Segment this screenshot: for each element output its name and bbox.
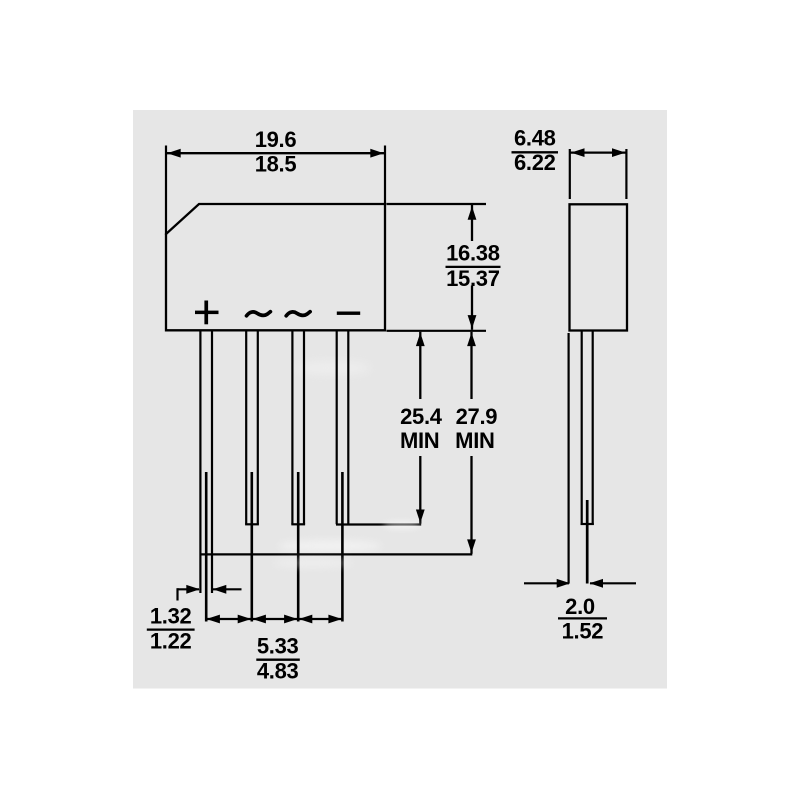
side view body outline <box>570 204 628 330</box>
svg-text:2.0: 2.0 <box>565 594 595 619</box>
tilde marking 2 <box>286 312 310 316</box>
dimension 16.38/15.37 body height <box>387 204 501 331</box>
svg-text:4.83: 4.83 <box>257 659 299 684</box>
svg-text:1.32: 1.32 <box>150 604 192 629</box>
plus marking <box>195 301 219 325</box>
svg-text:1.52: 1.52 <box>562 619 604 644</box>
watermark ghost smudge (over layer) <box>273 521 421 568</box>
gray drawing panel background <box>133 110 667 689</box>
dimension 6.48/6.22 side width <box>512 125 627 199</box>
side view lead <box>581 331 594 584</box>
svg-text:5.33: 5.33 <box>257 634 299 659</box>
tilde marking 1 <box>247 312 271 316</box>
side view left reference line <box>567 333 569 583</box>
dimension 5.33/4.83 lead pitch <box>206 615 343 684</box>
dimension 19.6/18.5 top width <box>166 127 385 235</box>
svg-text:27.9: 27.9 <box>456 404 498 429</box>
svg-text:1.22: 1.22 <box>150 628 192 653</box>
dimension 2.0/1.52 lead thickness <box>524 579 636 644</box>
front view body outline <box>166 204 385 330</box>
svg-text:16.38: 16.38 <box>446 241 500 266</box>
dimension 25.4 MIN <box>336 332 443 525</box>
svg-text:MIN: MIN <box>455 428 494 453</box>
svg-text:25.4: 25.4 <box>400 404 443 429</box>
svg-text:19.6: 19.6 <box>255 127 297 152</box>
lead 4 <box>337 331 349 622</box>
watermark ghost smudge (under layer) <box>278 362 382 552</box>
svg-text:6.22: 6.22 <box>514 150 556 175</box>
lead 2 <box>245 331 259 622</box>
svg-text:6.48: 6.48 <box>514 125 556 150</box>
svg-text:MIN: MIN <box>400 428 439 453</box>
svg-text:15.37: 15.37 <box>446 266 500 291</box>
dimension 1.32/1.22 lead width <box>147 585 242 654</box>
lead 1 (plus lead) <box>200 331 212 622</box>
svg-text:18.5: 18.5 <box>255 152 297 177</box>
minus marking <box>337 312 360 315</box>
dimension 27.9 MIN <box>200 332 498 555</box>
lead 3 <box>291 331 305 622</box>
